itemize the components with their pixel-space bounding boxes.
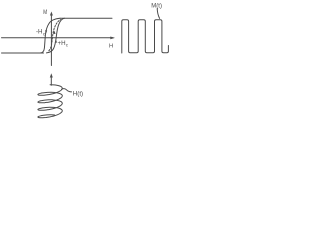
H axis arrowhead bbox=[110, 37, 115, 40]
arrowhead on left branch (down) bbox=[45, 30, 47, 33]
svg-text:M: M bbox=[43, 9, 47, 16]
initial magnetization dashed curve bbox=[49, 20, 61, 51]
svg-text:-H: -H bbox=[36, 29, 43, 36]
hysteresis descending (left) branch bbox=[40, 18, 60, 53]
coil field arrowhead bbox=[50, 73, 53, 77]
svg-text:H: H bbox=[109, 43, 113, 49]
leader line from M(t) label bbox=[157, 9, 159, 19]
arrowhead on right branch (up) bbox=[55, 40, 57, 43]
hysteresis ascending (right) branch bbox=[47, 18, 65, 53]
leader squiggle to H(t) label bbox=[62, 89, 72, 92]
coil (solenoid) bbox=[38, 85, 62, 118]
svg-text:H(t): H(t) bbox=[73, 90, 83, 97]
coil field arrow (up) bbox=[50, 77, 52, 86]
svg-text:+H: +H bbox=[58, 40, 66, 47]
hysteresis bottom saturation plateau bbox=[2, 52, 44, 54]
M axis bbox=[50, 14, 52, 66]
hysteresis top saturation plateau bbox=[60, 17, 112, 19]
svg-text:M(t): M(t) bbox=[151, 3, 162, 9]
arrowhead on dashed curve (up) bbox=[53, 31, 56, 34]
M axis arrowhead bbox=[50, 12, 53, 16]
H axis bbox=[2, 37, 114, 39]
svg-text:c: c bbox=[66, 43, 69, 48]
square wave M(t) bbox=[122, 20, 169, 53]
